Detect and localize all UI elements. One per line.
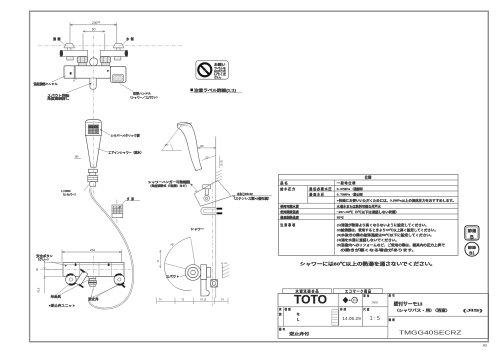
label 安全ボタン（グレー）: [36, 254, 67, 267]
svg-text:シャワー: シャワー: [191, 227, 205, 231]
svg-text:最高耐熱温度: 最高耐熱温度: [280, 214, 299, 219]
prohibition label text column: [214, 61, 227, 79]
svg-text:74: 74: [157, 259, 160, 262]
label シャワーハンガー可動範囲: [148, 180, 190, 187]
spout outlet: [90, 78, 96, 89]
svg-text:L=1600: L=1600: [61, 189, 71, 193]
spec table row 給水圧力 最低必要水圧: [280, 186, 365, 191]
svg-text:使用環境温度: 使用環境温度: [279, 209, 299, 214]
svg-text:（ステンレス製×2個付属）: （ステンレス製×2個付属）: [232, 196, 271, 200]
right wall lock nut: [115, 57, 121, 60]
label ●逆止弁ユニット: [49, 304, 76, 308]
svg-text:逆止弁付: 逆止弁付: [289, 331, 310, 336]
svg-text:TMGG40SECRZ: TMGG40SECRZ: [399, 330, 462, 336]
unit cell 単位 mm: [363, 294, 377, 305]
svg-text:74: 74: [159, 299, 162, 302]
hand shower handle: [86, 135, 101, 167]
shower hanger bracket: [203, 185, 211, 195]
svg-text:1:5: 1:5: [370, 316, 381, 322]
svg-text:92.5: 92.5: [38, 287, 41, 292]
svg-text:温度調節ハンドル: 温度調節ハンドル: [34, 82, 58, 86]
svg-text:12~25: 12~25: [221, 159, 223, 166]
svg-text:し: し: [297, 316, 300, 321]
hanger swing fan: [190, 180, 231, 206]
spec table column lines: [308, 180, 335, 255]
title block: certification box 水道法適合品: [283, 289, 332, 294]
bottom view left dimension chain: [36, 255, 62, 293]
svg-text:+: +: [349, 299, 351, 303]
svg-text:45°: 45°: [195, 191, 198, 193]
faucet body: [64, 66, 110, 78]
svg-text:逆止弁: 逆止弁: [88, 297, 99, 301]
spec table row note 0.2MPa: [337, 199, 456, 203]
label 湯側: [53, 36, 67, 46]
thermo dome cap: [90, 56, 98, 66]
label エアインシャワー（節水）: [97, 149, 143, 155]
svg-text:給水圧力: 給水圧力: [280, 186, 295, 191]
svg-text:使用可能水質: 使用可能水質: [279, 203, 299, 208]
svg-text:100: 100: [200, 145, 205, 148]
side assembly wall surface line: [215, 182, 217, 298]
right union nut: [100, 57, 111, 66]
bottom dimension chain (side view): [157, 298, 229, 305]
front view vertical centerline: [93, 36, 95, 199]
stop valve detail label: [119, 197, 140, 209]
svg-text:mm: mm: [372, 300, 378, 304]
svg-text:図番: 図番: [389, 317, 396, 321]
label シルバーメタリック調: [100, 129, 140, 137]
title block main border: [278, 293, 488, 338]
left union nut: [77, 57, 88, 66]
title block: eco mark box エコマーク商品: [333, 289, 382, 294]
svg-text:70: 70: [181, 299, 184, 302]
angled spout cylinder: [75, 269, 88, 287]
svg-text:一般地仕様: 一般地仕様: [337, 180, 356, 185]
approval stamp box: [332, 310, 338, 325]
side view left vertical dimension 74: [157, 250, 161, 268]
fastener callout: [232, 192, 273, 201]
svg-text:15°: 15°: [205, 156, 209, 159]
label 切替ハンドル（シャワー／スパウト）: [120, 84, 160, 100]
svg-text:エコマーク商品: エコマーク商品: [345, 289, 372, 294]
water-saving badge B1 (circle): [465, 242, 479, 256]
svg-text:スパウト: スパウト: [166, 275, 180, 279]
indicator mark on handle: [107, 70, 109, 72]
side assembly wall centerline: [212, 182, 214, 306]
svg-text:200±2: 200±2: [92, 21, 101, 25]
svg-text:97.15: 97.15: [200, 299, 207, 302]
label スパウト: [166, 275, 189, 279]
spec table row 注意事項: [280, 222, 445, 252]
right eccentric pipe: [100, 50, 128, 56]
approval なし: [297, 311, 300, 321]
svg-text:エアインシャワー（節水）: エアインシャワー（節水）: [108, 151, 143, 155]
wall hatch (pipe inlet): [221, 262, 230, 278]
svg-text:備考: 備考: [279, 327, 286, 331]
svg-text:B: B: [470, 235, 474, 241]
svg-text:壁付サーモ13: 壁付サーモ13: [394, 300, 423, 307]
side view shower head curved profile: [177, 122, 202, 170]
scale 1:5: [370, 316, 381, 322]
label 水側: [121, 36, 134, 46]
svg-text:シルバーメタリック調: シルバーメタリック調: [111, 134, 140, 138]
left wall lock nut: [67, 57, 73, 60]
sheet size label A3: [483, 344, 487, 348]
side view wall reference line: [216, 137, 222, 183]
hanger pivot washer: [204, 196, 210, 202]
spec table row 品名: [280, 180, 356, 185]
title block cell dividers: [278, 293, 488, 338]
spec table row 最高耐熱温度: [280, 214, 344, 219]
svg-text:尺度: 尺度: [363, 307, 370, 311]
svg-text:シャワーには60℃以上の熱湯を通さないでください。: シャワーには60℃以上の熱湯を通さないでください。: [300, 261, 436, 268]
spec table row lines: [279, 180, 459, 220]
dimension 90: [83, 31, 105, 55]
svg-text:品名: 品名: [280, 180, 287, 185]
svg-text:(3)水抜きの際の給湯温度は50℃以下に設定してください。: (3)水抜きの際の給湯温度は50℃以下に設定してください。: [337, 232, 434, 237]
svg-text:189: 189: [74, 155, 79, 158]
svg-text:(2)給湯器は、使用するときより10℃以上高く設定してくださ: (2)給湯器は、使用するときより10℃以上高く設定してください。: [337, 227, 438, 232]
svg-text:（シルバー）: （シルバー）: [61, 192, 77, 196]
svg-text:TOTO: TOTO: [294, 293, 327, 307]
approval row labels: [279, 307, 370, 316]
diverter handle housing: [110, 66, 126, 82]
left eccentric pipe: [60, 50, 88, 56]
svg-text:検図: 検図: [284, 307, 292, 311]
svg-text:注意ラベル詳細(1:1): 注意ラベル詳細(1:1): [194, 88, 236, 93]
valve side blocks: [201, 265, 218, 287]
svg-text:●快適にお使いいただくためには、0.2MPa以上の流体圧力を: ●快適にお使いいただくためには、0.2MPa以上の流体圧力をおすすめします。: [337, 199, 456, 203]
svg-text:仕様: 仕様: [364, 175, 372, 180]
svg-text:●逆止弁ユニット: ●逆止弁ユニット: [49, 304, 76, 308]
svg-text:角度規制詳し: 角度規制詳し: [47, 97, 70, 101]
svg-text:45°: 45°: [171, 244, 175, 247]
svg-text:90: 90: [92, 27, 96, 31]
svg-text:52: 52: [73, 81, 76, 83]
drawing number cell TMGG40SECRZ: [389, 317, 463, 336]
spec table outer border: [279, 174, 459, 255]
date 14.05.29: [342, 316, 361, 322]
svg-text:な: な: [297, 311, 300, 316]
prohibition ring: [198, 63, 211, 76]
svg-text:(JIS): (JIS): [463, 309, 484, 313]
spec table row 使用環境温度: [279, 209, 399, 214]
dimension 250 (bottom view): [62, 248, 122, 262]
spec table row 最高水圧: [309, 191, 365, 196]
svg-text:250: 250: [90, 248, 95, 252]
svg-text:B1: B1: [469, 250, 475, 255]
dimension 200±2: [70, 22, 117, 43]
prohibition label box: [196, 61, 228, 80]
svg-text:作成: 作成: [340, 307, 347, 311]
svg-text:35: 35: [36, 268, 39, 271]
label 温度調節ハンドル: [34, 76, 67, 86]
side view gap dimension 12~25: [219, 156, 223, 169]
eco mark symbols: [343, 297, 358, 303]
mounting screws on body: [75, 263, 110, 266]
shower hose: [89, 188, 133, 309]
svg-text:品名: 品名: [389, 293, 396, 297]
svg-text:0. 07MPa （流動時）: 0. 07MPa （流動時）: [337, 187, 365, 191]
label スパウト回転 角度規制詳し: [47, 83, 91, 101]
valve hub circles (side view): [185, 265, 201, 281]
right check valve volute / hose elbow: [114, 274, 125, 287]
svg-text:85℃: 85℃: [337, 215, 344, 219]
svg-text:湯側: 湯側: [53, 36, 60, 41]
svg-text:注意事項: 注意事項: [280, 222, 296, 227]
spout side profile: [201, 280, 209, 296]
spec table row 使用可能水質: [279, 203, 381, 208]
svg-text:（グレー）: （グレー）: [36, 258, 50, 262]
svg-text:0. 75MPa （静止時）: 0. 75MPa （静止時）: [337, 192, 365, 196]
svg-text:単位: 単位: [363, 294, 370, 298]
svg-text:木ねじΦ5×30: 木ねじΦ5×30: [236, 192, 253, 196]
svg-text:の動きが悪くなる場合があります。: の動きが悪くなる場合があります。: [341, 247, 417, 252]
remarks row 備考 逆止弁付: [279, 327, 310, 336]
center aerator stack: [88, 276, 96, 287]
stop valve detail box: [112, 200, 123, 223]
side view 15 degree dimension: [202, 156, 216, 161]
svg-text:節湯: 節湯: [468, 244, 476, 249]
side view dimension 100: [198, 145, 216, 149]
side view 45 degree dimension: [162, 124, 182, 150]
svg-text:(4)湯を水道に直結しないでください。: (4)湯を水道に直結しないでください。: [337, 237, 399, 242]
svg-text:14.05.29: 14.05.29: [342, 316, 361, 322]
svg-text:45°: 45°: [165, 144, 169, 147]
svg-text:A3: A3: [483, 344, 487, 348]
bottom view faucet body: [63, 263, 124, 277]
svg-text:（角度調節式（5段階）など）: （角度調節式（5段階）など）: [149, 183, 189, 187]
warning note below table: [300, 261, 436, 268]
right wall flange: [113, 43, 124, 50]
hand shower connector stack: [88, 169, 98, 186]
hanger holder hook: [201, 207, 216, 215]
label 逆止弁 with leaders: [88, 284, 118, 301]
hand shower face grid: [88, 125, 98, 134]
TOTO logo: [294, 293, 327, 307]
svg-text:(1)湯温が熱湯より高くならないように設定してください。: (1)湯温が熱湯より高くならないように設定してください。: [337, 222, 429, 227]
svg-text:74: 74: [221, 299, 224, 302]
left check valve volute: [66, 274, 77, 285]
label L=1600 シルバー: [61, 185, 89, 197]
svg-text:節湯: 節湯: [468, 228, 478, 233]
svg-text:（シャワバス・用）（浴室）: （シャワバス・用）（浴室）: [394, 308, 450, 313]
left wall flange: [64, 43, 75, 50]
bottom view body centerlines: [40, 256, 132, 291]
svg-text:水側: 水側: [126, 36, 133, 41]
caption 注意ラベル詳細(1:1): [190, 88, 242, 93]
svg-text:最高水圧: 最高水圧: [309, 191, 325, 196]
product name cell: [389, 293, 485, 313]
svg-text:切替ハンドル: 切替ハンドル: [133, 92, 151, 96]
svg-text:さい。: さい。: [214, 75, 223, 79]
wall union nut circles: [210, 280, 217, 287]
svg-text:安全ボタン: 安全ボタン: [36, 254, 53, 258]
svg-text:お願い: お願い: [214, 61, 226, 66]
label シャワー: [191, 227, 205, 231]
dimension 189 on handle: [74, 155, 81, 158]
hanger swing arc: [164, 237, 196, 291]
tiny stacked dimension near body: [73, 78, 78, 82]
label 吊金具 with leaders: [51, 278, 93, 299]
svg-text:FL.t12: FL.t12: [221, 262, 228, 265]
svg-text:シャワーハンガー可動範囲: シャワーハンガー可動範囲: [148, 180, 190, 184]
hanger wall anchor bars: [217, 208, 223, 215]
svg-text:最低必要水圧: 最低必要水圧: [309, 186, 332, 191]
svg-text:承: 承: [279, 307, 282, 311]
safety button on body: [70, 72, 72, 74]
spec table header 仕様: [364, 175, 372, 180]
svg-text:水道水または飲料可能な井戸水: 水道水または飲料可能な井戸水: [336, 203, 382, 208]
water-saving badge B (square): [465, 226, 479, 241]
svg-text:認: 認: [279, 312, 282, 316]
svg-text:−20〜40℃（0℃以下は凍結しない状態）: −20〜40℃（0℃以下は凍結しない状態）: [337, 209, 399, 214]
svg-text:（シャワー／スパウト）: （シャワー／スパウト）: [129, 95, 160, 99]
front view horizontal centerline: [38, 45, 183, 47]
hand shower head cap: [85, 120, 101, 136]
svg-text:(5)浴室内へのリフォームなど、ご使用の際は、器具内の圧力上: (5)浴室内へのリフォームなど、ご使用の際は、器具内の圧力上昇で: [337, 242, 445, 247]
